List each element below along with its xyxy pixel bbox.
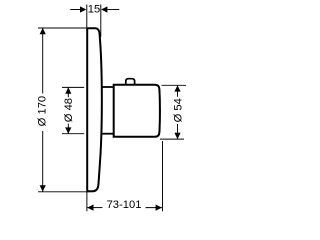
dim 15 right arrowhead xyxy=(101,6,107,12)
dim 15 left arrowhead xyxy=(80,6,86,12)
button on handle top xyxy=(126,79,135,85)
dim 73-101 right arrow tail xyxy=(146,207,162,209)
dim O48 dimension line xyxy=(67,87,69,133)
svg-text:Ø 170: Ø 170 xyxy=(36,96,48,126)
dim O54 dimension line xyxy=(177,85,179,139)
handle knob side profile xyxy=(114,85,160,137)
svg-text:Ø 54: Ø 54 xyxy=(172,98,184,122)
dim O170 bottom arrowhead xyxy=(40,185,46,191)
dim 73-101 left extension line xyxy=(86,192,88,212)
dim 73-101 left arrow tail xyxy=(87,207,102,209)
dim 15 left arrow tail xyxy=(70,9,80,11)
dim 73-101 right arrowhead xyxy=(156,205,162,211)
escutcheon plate side profile xyxy=(87,28,102,191)
dim 73-101 right extension line xyxy=(162,141,164,211)
dim O170 top arrowhead xyxy=(40,28,46,34)
sleeve top line xyxy=(101,86,114,88)
dim O54 bottom arrowhead xyxy=(174,133,180,139)
dim 15 right extension line xyxy=(100,5,102,38)
dim O170 dimension line lower xyxy=(42,131,44,192)
dim 73-101 left arrowhead xyxy=(87,205,93,211)
dim O48 bottom arrowhead xyxy=(65,127,71,133)
svg-text:15: 15 xyxy=(88,4,100,16)
dim O48 top extension line xyxy=(62,86,84,88)
dim O54 top arrowhead xyxy=(174,85,180,91)
dim 15 right arrow tail xyxy=(107,9,119,11)
dim O170 top extension line xyxy=(38,27,86,29)
dim O48 top arrowhead xyxy=(65,87,71,93)
svg-text:73-101: 73-101 xyxy=(107,199,142,211)
dim O54 bottom extension line xyxy=(160,138,184,140)
dim O170 bottom extension line xyxy=(38,191,86,193)
dim O54 top extension line xyxy=(162,84,187,86)
dim O48 bottom extension line xyxy=(62,133,84,135)
sleeve bottom line xyxy=(101,133,114,135)
dim O170 dimension line upper xyxy=(42,28,44,94)
dim 15 left extension line xyxy=(86,5,88,28)
svg-text:Ø 48: Ø 48 xyxy=(63,98,75,122)
